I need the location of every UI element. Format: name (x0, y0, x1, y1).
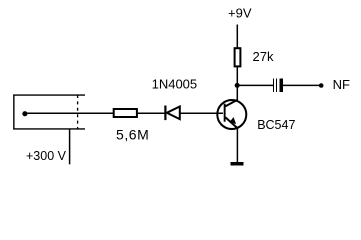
svg-text:27k: 27k (253, 49, 274, 64)
svg-text:NF: NF (333, 77, 350, 92)
svg-text:+9V: +9V (228, 5, 252, 20)
svg-text:BC547: BC547 (257, 118, 295, 132)
svg-text:5,6M: 5,6M (116, 127, 149, 143)
svg-text:1N4005: 1N4005 (152, 77, 198, 92)
svg-text:+300 V: +300 V (26, 149, 67, 163)
